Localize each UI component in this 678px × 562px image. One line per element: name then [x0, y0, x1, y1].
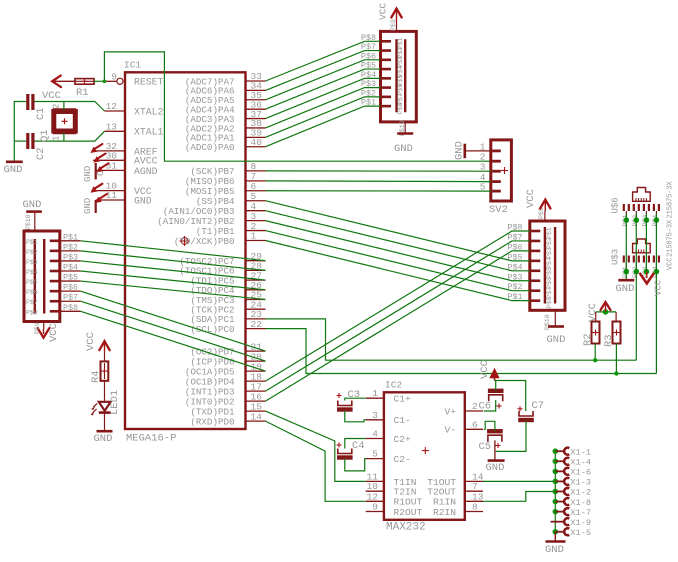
R1 origin cross [82, 78, 88, 84]
svg-text:GND: GND [486, 462, 505, 474]
svg-text:C1: C1 [35, 107, 47, 120]
header SV1 pin stub row 6 [60, 290, 81, 292]
IC2 pin 2 stub (V+) [465, 410, 483, 412]
svg-text:22: 22 [251, 319, 263, 330]
svg-text:GND: GND [616, 283, 635, 295]
supply VCC arrow at AREF pin 32 [90, 144, 102, 153]
svg-text:2: 2 [52, 104, 62, 109]
supply VCC arrow at R1 [52, 80, 75, 82]
IC1 pin 3 stub ((AIN0/INT2)PB2) [246, 220, 266, 222]
IC1 pin 10 stub (VCC) [93, 190, 125, 192]
svg-text:MEGA16-P: MEGA16-P [126, 433, 176, 445]
capacitor C6 (polarized, inverted) [488, 391, 504, 402]
wire C3 bottom to IC2 pin 3 [345, 410, 366, 422]
header SV1 inner pin bars [34, 239, 36, 314]
connector pin X1-1 [564, 448, 569, 455]
wire crystal bottom pin [63, 133, 65, 142]
svg-text:C2+: C2+ [394, 434, 412, 445]
svg-text:6: 6 [472, 419, 478, 430]
IC1 pin 32 stub (AREF) [93, 150, 125, 152]
IC1 pin 19 stub ((OC1A)PD5) [246, 370, 266, 372]
svg-text:GND: GND [547, 334, 566, 346]
IC2 pin 7 stub (T2OUT) [465, 490, 483, 492]
svg-text:P$8: P$8 [546, 297, 553, 309]
header SV1 pad mark row 2 [50, 250, 59, 253]
svg-text:R2OUT: R2OUT [394, 507, 423, 518]
svg-text:1: 1 [52, 136, 62, 141]
ground below C5 [488, 459, 505, 462]
IC1 pin 17 stub ((INT1)PD3) [246, 390, 266, 392]
svg-text:R4: R4 [90, 370, 102, 383]
U$6 pin cup P$3 [644, 204, 649, 211]
supply VCC arrow above header JP [391, 9, 401, 18]
wire IC1 pin 2 to header SV3 row 7 [266, 231, 530, 291]
svg-text:13: 13 [106, 121, 118, 132]
header SV1 pad mark row 5 [50, 280, 59, 283]
svg-text:GND: GND [83, 166, 93, 182]
IC2 pin 11 stub (T1IN) [366, 480, 384, 482]
IC1 pin 34 stub ((ADC6)PA6) [246, 89, 266, 91]
svg-text:VCC: VCC [42, 90, 61, 102]
svg-text:C2: C2 [35, 147, 47, 160]
capacitor C2 [28, 133, 33, 149]
junction at X1-4 [553, 458, 559, 464]
ground above header SV1 [26, 210, 42, 213]
svg-text:P$1: P$1 [26, 239, 38, 246]
svg-text:C2-: C2- [394, 454, 411, 465]
wire PA7 (pin 33) to header JP row 1 [266, 41, 381, 81]
junction RESET node [103, 80, 107, 84]
IC2 pin 8 stub (R2IN) [465, 511, 483, 513]
wire jack column 2 (SDA) [635, 214, 637, 360]
junction at X1-5 [553, 529, 559, 535]
U$3 pin cup P$1 [624, 256, 629, 263]
supply GND at GND pin 11 [95, 200, 97, 213]
U$6 pin cup P$2 [634, 204, 639, 211]
svg-text:P$8: P$8 [63, 303, 78, 313]
wire IC1 pin 3 to header SV3 row 6 [266, 221, 530, 281]
header SV3 pad mark row 7 [531, 289, 540, 292]
connector pin X1-3 [564, 478, 569, 485]
IC1 pin 20 stub ((ICP)PD6) [246, 360, 266, 362]
wire stub to X1-8 [555, 501, 564, 503]
wire PA4 (pin 36) to header JP row 4 [266, 69, 381, 109]
IC2 MAX232 body [384, 392, 465, 520]
IC1 MEGA16-P body [125, 72, 246, 429]
wire IC1 pin 7 to SV2 pin 4 [266, 180, 491, 183]
header JP pad mark row 2 [382, 49, 391, 52]
wire IC1 pin 4 to header SV3 row 5 [266, 211, 530, 271]
svg-text:(T0/XCK)PB0: (T0/XCK)PB0 [174, 236, 235, 247]
IC1 pin 33 stub ((ADC7)PA7) [246, 80, 266, 82]
svg-text:X1-6: X1-6 [570, 468, 591, 478]
connector pin X1-5 [564, 528, 569, 535]
connector pin X1-9 [564, 518, 569, 525]
junction row under U$6 [624, 217, 630, 223]
svg-text:X1-3: X1-3 [570, 478, 591, 488]
junction at X1-3 [553, 479, 559, 485]
header JP pad mark row 3 [382, 59, 391, 62]
IC2 pin 1 stub (C1+) [366, 397, 384, 399]
wire stub to X1-9 (no junction) [551, 521, 564, 523]
header SV3 pad mark row 8 [531, 299, 540, 302]
wire crystal top pin [63, 102, 65, 111]
svg-text:8: 8 [472, 502, 478, 513]
svg-text:P$8: P$8 [26, 309, 38, 316]
wire R1 to RESET pin [94, 80, 105, 82]
junction VCC above R2 R3 [603, 309, 609, 315]
wire X1 common vertical [554, 451, 556, 532]
SV2 pad mark pin 5 [492, 190, 501, 193]
wire PA6 (pin 34) to header JP row 2 [266, 51, 381, 91]
svg-text:215875-3X: 215875-3X [667, 181, 675, 219]
supply VCC arrow above header SV3 [540, 200, 550, 209]
svg-text:C1+: C1+ [394, 394, 412, 405]
svg-text:VCC: VCC [48, 323, 60, 342]
svg-text:GND: GND [94, 433, 113, 445]
junction at X1-6 [553, 469, 559, 475]
capacitor C4 [337, 449, 353, 458]
connector pin X1-6 [564, 468, 569, 475]
wire R4 to LED1 [104, 381, 106, 402]
wire C6 bottom to IC2 V+ [484, 400, 496, 411]
connector SV2 body [491, 140, 512, 201]
svg-text:P$6: P$6 [546, 277, 553, 289]
IC1 pin 38 stub ((ADC2)PA2) [246, 127, 266, 129]
R3 origin cross [614, 330, 620, 336]
wire X1-5 to GND [554, 532, 556, 541]
wire R2 bottom to SDA net [594, 344, 596, 361]
svg-text:C7: C7 [532, 400, 545, 412]
wire jack column 3 (VCC) [645, 214, 647, 274]
svg-text:P$3: P$3 [26, 259, 38, 266]
header JP pad mark row 8 [382, 105, 391, 108]
IC1 pin 21 stub ((OC2)PD7) [246, 350, 266, 352]
wire IC1 pin 18 to header SV3 row 1 [266, 231, 530, 381]
IC1 pin 40 stub ((ADC0)PA0) [246, 146, 266, 148]
junction C5/C7 [0, 0, 1, 1]
IC1 pin 24 stub ((TCK)PC2) [246, 308, 266, 310]
wire R3 bottom to SCL net [615, 344, 617, 374]
header SV3 inner pin bars [544, 227, 546, 304]
ground below header JP [397, 132, 413, 135]
svg-text:1: 1 [251, 231, 257, 242]
wire header SV1 row 7 to IC1 pin 20 [81, 301, 266, 361]
wire stub to X1-6 [555, 470, 564, 472]
wire C2 to GND branch [14, 140, 26, 142]
svg-text:11: 11 [106, 190, 118, 201]
wire VCC rail to C7 [495, 381, 526, 412]
pin header JP top-right body [381, 31, 417, 122]
junction R3/SCL [614, 371, 618, 375]
pin header SV3 body [530, 221, 565, 310]
svg-text:215875-3X: 215875-3X [667, 219, 675, 257]
wire IC1 pin 6 to SV2 pin 5 [266, 190, 491, 192]
svg-text:14: 14 [251, 411, 263, 422]
IC2 pin 9 stub (R2OUT) [366, 511, 384, 513]
svg-text:GND: GND [4, 164, 23, 176]
resistor R2 [592, 322, 600, 344]
wire header SV3 GND [554, 310, 556, 326]
wire PA1 (pin 39) to header JP row 7 [266, 97, 381, 137]
IC1 pin 39 stub ((ADC1)PA1) [246, 136, 266, 138]
wire PA0 (pin 40) to header JP row 8 [266, 106, 381, 147]
svg-text:P$5: P$5 [26, 279, 38, 286]
IC1 pin 35 stub ((ADC5)PA5) [246, 99, 266, 101]
junction at X1-8 [553, 499, 559, 505]
svg-text:LED1: LED1 [109, 390, 121, 415]
svg-text:C: C [96, 170, 106, 176]
junction at X1-2 [553, 489, 559, 495]
supply VCC arrow below U$3 column 3 (pointing down) [640, 274, 653, 284]
wire IC1 pin 14 (RXD) to IC2 R1OUT [266, 421, 366, 501]
svg-text:Q1: Q1 [39, 129, 51, 142]
connector pin X1-4 [564, 458, 569, 465]
header SV1 pad mark row 3 [50, 260, 59, 263]
ground below LED1 [97, 430, 113, 433]
capacitor C5 (polarized, inverted) [487, 431, 503, 442]
IC1 pin 27 stub ((TDI)PC5) [246, 279, 266, 281]
IC1 pin 18 stub ((OC1B)PD4) [246, 380, 266, 382]
wire C1 to GND [14, 102, 26, 162]
svg-text:P$4: P$4 [63, 263, 78, 273]
svg-text:U$3: U$3 [611, 249, 621, 265]
svg-text:2: 2 [472, 401, 478, 412]
junction row under U$3 [624, 269, 630, 275]
supply VCC arrow at VCC pin 10 [90, 184, 102, 193]
pin header SV1 body [24, 231, 60, 322]
IC1 pin 11 stub (GND) [96, 199, 125, 201]
wire C6 top to VCC rail [495, 381, 497, 391]
svg-text:VCC: VCC [667, 257, 675, 270]
IC1 pin 14 stub ((RXD)PD0) [246, 420, 266, 422]
svg-text:P$7: P$7 [63, 293, 78, 303]
svg-text:C5: C5 [479, 441, 492, 453]
svg-text:AGND: AGND [134, 166, 158, 177]
svg-text:V-: V- [444, 425, 456, 436]
header SV1 pin stub row 8 [60, 310, 81, 312]
supply VCC arrow above R2 R3 [601, 302, 611, 310]
wire C3 top to IC2 pin 1 [345, 398, 366, 400]
wire IC2 T1OUT to X1-3 [483, 480, 555, 482]
supply VCC arrow at AVCC pin 30 [93, 154, 105, 163]
wire header SV1 row 2 to IC1 pin 28 [81, 251, 266, 271]
svg-text:XTAL1: XTAL1 [134, 127, 164, 138]
header SV1 pin stub row 2 [60, 250, 81, 252]
svg-text:P$9: P$9 [34, 322, 41, 334]
IC1 pin 13 stub (XTAL1) [105, 130, 126, 132]
header SV1 pin stub row 7 [60, 300, 81, 302]
svg-text:(RXD)PD0: (RXD)PD0 [190, 416, 234, 427]
wire header SV3 VCC [544, 211, 546, 221]
LED LED1 [99, 402, 111, 413]
svg-text:(ADC0)PA0: (ADC0)PA0 [185, 142, 235, 153]
wire VCC split to R2 R3 [596, 311, 616, 313]
svg-text:R2IN: R2IN [433, 507, 456, 518]
header SV3 pad mark row 1 [531, 230, 540, 233]
header JP pad mark row 5 [382, 77, 391, 80]
svg-text:GND: GND [134, 195, 152, 206]
supply GND at AGND pin 31 [95, 163, 97, 179]
svg-text:P$4: P$4 [26, 269, 38, 276]
connector pin X1-2 [564, 488, 569, 495]
IC1 pin 15 stub ((TXD)PD1) [246, 410, 266, 412]
wire VCC arrow to R4 [104, 352, 106, 362]
SV2 pad mark pin 2 [492, 160, 501, 163]
header JP pad mark row 1 [382, 40, 391, 43]
svg-text:VCC: VCC [587, 303, 599, 322]
wire header SV1 row 5 to IC1 pin 25 [81, 281, 266, 299]
wire C4 top to IC2 pin 4 [345, 439, 366, 449]
svg-text:IC1: IC1 [124, 60, 141, 71]
svg-text:X1-2: X1-2 [570, 488, 591, 498]
wire header SV1 row 1 to IC1 pin 29 [81, 241, 266, 261]
wire stub to X1-3 [555, 480, 564, 482]
IC2 pin 13 stub (R1IN) [465, 500, 483, 502]
svg-text:P$6: P$6 [26, 289, 38, 296]
svg-text:P$1: P$1 [63, 232, 78, 242]
wire PA3 (pin 37) to header JP row 5 [266, 78, 381, 118]
SV2 origin cross [501, 167, 508, 174]
IC1 pin 36 stub ((ADC4)PA4) [246, 108, 266, 110]
wire IC1 pin 17 to header SV3 row 2 [266, 241, 530, 391]
svg-text:C1-: C1- [394, 415, 411, 426]
svg-text:GND: GND [394, 143, 413, 155]
svg-text:P$7: P$7 [26, 299, 38, 306]
svg-text:31: 31 [106, 160, 118, 171]
IC1 pin 7 stub ((MISO)PB6) [246, 180, 266, 182]
wire SDA net from IC1 pin 23 [266, 319, 637, 360]
resistor R3 [613, 322, 621, 344]
IC1 pin 26 stub ((TDO)PC4) [246, 289, 266, 291]
header SV1 pin stub row 5 [60, 280, 81, 282]
U$3 pin cup P$3 [644, 256, 649, 263]
R4 origin cross [101, 368, 107, 374]
svg-text:MAX232: MAX232 [386, 522, 426, 534]
U$3 pin cup P$4 [654, 256, 659, 263]
junction at X1-7 [553, 509, 559, 515]
header SV1 pin stub row 1 [60, 240, 81, 242]
wire PA2 (pin 38) to header JP row 6 [266, 88, 381, 128]
wire IC2 R1IN to X1-2 [483, 492, 555, 502]
svg-text:P$3: P$3 [546, 247, 553, 259]
U$3 pin cup P$2 [634, 256, 639, 263]
svg-text:GND: GND [454, 141, 466, 160]
supply VCC arrow above R4 [99, 341, 109, 350]
wire stub to X1-2 [555, 490, 564, 492]
ground below U$3 column 1 [618, 279, 634, 282]
header SV3 pad mark row 4 [531, 260, 540, 263]
svg-text:P$6: P$6 [63, 283, 78, 293]
U$6 pin cup P$1 [624, 204, 629, 211]
IC1 pin 31 stub (AGND) [96, 169, 125, 171]
IC1 pin 28 stub ((TOSC1)PC6) [246, 269, 266, 271]
wire header JP GND [404, 122, 406, 133]
capacitor C3 [337, 401, 353, 410]
IC1 pin 29 stub ((TOSC2)PC7) [246, 260, 266, 262]
svg-text:VCC: VCC [85, 332, 97, 351]
wire C4 bottom to IC2 pin 5 [345, 458, 366, 471]
wire IC1 pin 5 to header SV3 row 4 [266, 201, 530, 261]
svg-text:1: 1 [372, 388, 378, 399]
IC1 pin 2 stub ((T1)PB1) [246, 230, 266, 232]
IC1 origin cross [180, 236, 190, 246]
wire LED1 to GND [104, 413, 106, 431]
IC2 pin 14 stub (T1OUT) [465, 480, 483, 482]
wire IC1 pin 16 to header SV3 row 3 [266, 251, 530, 401]
svg-text:R1: R1 [76, 87, 89, 99]
IC1 pin 6 stub ((MOSI)PB5) [246, 190, 266, 192]
svg-text:XTAL2: XTAL2 [134, 106, 164, 117]
supply VCC arrow above C6 [491, 370, 499, 381]
wire stub to X1-7 [555, 511, 564, 513]
C7 bottom wire to C5 node [496, 421, 526, 452]
wire header SV1 row 4 to IC1 pin 26 [81, 271, 266, 290]
IC2 pin 10 stub (T2IN) [366, 490, 384, 492]
wire header SV1 GND top [34, 212, 36, 231]
svg-text:P$10: P$10 [25, 214, 32, 230]
IC2 pin 3 stub (C1-) [366, 419, 384, 421]
wire header SV1 VCC bottom [43, 322, 45, 330]
wire jack column 4 (SCL) [655, 214, 657, 374]
svg-text:VCC: VCC [378, 3, 389, 20]
header SV3 pad mark row 2 [531, 240, 540, 243]
capacitor C7 [518, 411, 534, 420]
header SV3 pad mark row 6 [531, 279, 540, 282]
capacitor C1 [28, 94, 33, 110]
header SV3 pad mark row 5 [531, 269, 540, 272]
wire stub to X1-5 [555, 531, 564, 533]
wire to R2 top [595, 312, 597, 322]
svg-text:X1-8: X1-8 [570, 498, 591, 508]
svg-text:VCC: VCC [525, 189, 537, 208]
SV2 pad mark pin 1 [492, 149, 501, 152]
wire XTAL1 net [35, 131, 105, 141]
svg-text:P$2: P$2 [546, 237, 553, 249]
connector pin X1-7 [564, 508, 569, 515]
IC1 pin 22 stub ((SCL)PC0) [246, 328, 266, 330]
header SV1 pin stub row 3 [60, 260, 81, 262]
svg-text:X1-9: X1-9 [570, 518, 591, 528]
svg-text:GND: GND [545, 544, 564, 556]
svg-text:P$1: P$1 [546, 227, 553, 239]
svg-text:VCC: VCC [654, 279, 664, 296]
header SV1 pad mark row 4 [50, 270, 59, 273]
svg-text:P$2: P$2 [26, 249, 38, 256]
svg-text:P$5: P$5 [63, 273, 78, 283]
svg-text:X1-1: X1-1 [570, 447, 591, 457]
svg-text:4: 4 [372, 429, 378, 440]
wire header SV1 row 8 to IC1 pin 19 [81, 311, 266, 371]
header JP pad mark row 4 [382, 68, 391, 71]
IC1 pin 25 stub ((TMS)PC3) [246, 299, 266, 301]
IC1 pin 30 stub (AVCC) [93, 159, 125, 161]
svg-text:9: 9 [372, 502, 378, 513]
svg-text:X1-7: X1-7 [570, 508, 591, 518]
wire IC1 pin 15 (TXD) to IC2 T1IN [266, 411, 366, 481]
wire XTAL2 net [35, 102, 105, 112]
wire IC1 pin 8 to SV2 pin 3 [266, 170, 491, 172]
SV2 pad mark pin 4 [492, 180, 501, 183]
svg-text:P$3: P$3 [63, 252, 78, 262]
svg-text:VCC: VCC [479, 360, 491, 379]
header SV1 pad mark row 8 [50, 310, 59, 313]
header SV1 pad mark row 1 [50, 240, 59, 243]
IC2 pin 5 stub (C2-) [366, 458, 384, 460]
wire header JP VCC [396, 22, 398, 32]
svg-text:P$7: P$7 [546, 287, 553, 299]
R2 origin cross [593, 330, 599, 336]
